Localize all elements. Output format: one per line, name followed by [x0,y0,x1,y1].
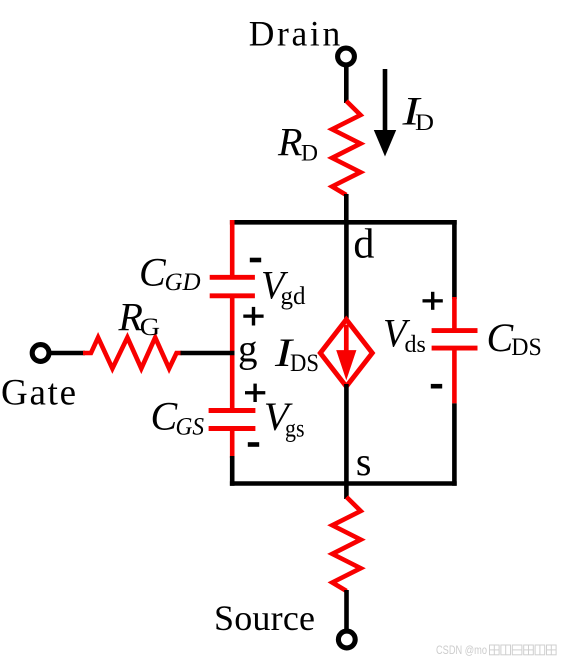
svg-text:D: D [415,110,434,136]
current source IDS (diamond) [320,320,372,387]
minus of Vds [431,384,442,389]
wire right-edge top (black) [452,220,457,299]
wire RS-to-source [344,590,349,631]
svg-text:GS: GS [176,414,205,441]
svg-text:DS: DS [290,350,319,377]
wire RD-to-box [344,194,349,224]
plus of Vgs [245,391,265,394]
wire center d-branch [344,220,349,322]
svg-text:Source: Source [214,598,315,638]
wire box top [230,220,457,225]
wire gate-to-RG [50,351,85,356]
node Drain (terminal) [338,48,355,65]
capacitor CGD [210,275,255,280]
svg-text:s: s [356,439,372,484]
wire left-edge lower (red) [230,427,235,459]
wire center s-branch [344,384,349,499]
minus of Vgs [248,442,259,447]
wire left-edge middle (red, through node g) [230,294,235,410]
svg-text:gd: gd [281,283,307,310]
resistor RD [332,101,360,195]
capacitor CDS [432,328,478,333]
resistor RG [83,338,182,369]
wire right-edge bottom (black) [452,403,457,485]
plus of Vgd [243,315,263,318]
svg-text:GD: GD [165,269,201,296]
svg-text:g: g [238,327,258,370]
watermark [436,643,556,657]
wire right-edge (red upper) [452,297,457,329]
svg-text:Drain: Drain [249,14,341,54]
svg-text:gs: gs [285,415,305,442]
svg-text:G: G [140,314,160,341]
svg-text:Gate: Gate [1,372,76,413]
resistor RS [332,497,360,591]
plus of Vds [423,299,443,302]
wire box bottom [230,481,457,486]
svg-text:C: C [151,393,179,438]
svg-text:CSDN @mo: CSDN @mo [436,643,487,657]
wire right-edge (red lower) [452,350,457,403]
wire left-edge top (red) [230,220,235,276]
node Gate (terminal) [32,345,49,362]
svg-text:d: d [353,222,374,268]
node Source (terminal) [338,631,355,648]
wire RG-to-g [181,351,235,356]
wire drain-to-RD [344,66,349,103]
capacitor CGS [209,408,256,413]
current arrow ID [383,69,388,133]
svg-text:C: C [139,250,167,295]
current source arrow [344,325,349,352]
svg-text:ds: ds [405,332,426,358]
svg-text:R: R [277,119,302,164]
svg-text:D: D [301,141,318,167]
svg-text:DS: DS [511,334,542,361]
svg-text:C: C [487,315,515,360]
minus of Vgd [250,258,261,263]
wire left-edge bottom (black) [230,456,235,486]
